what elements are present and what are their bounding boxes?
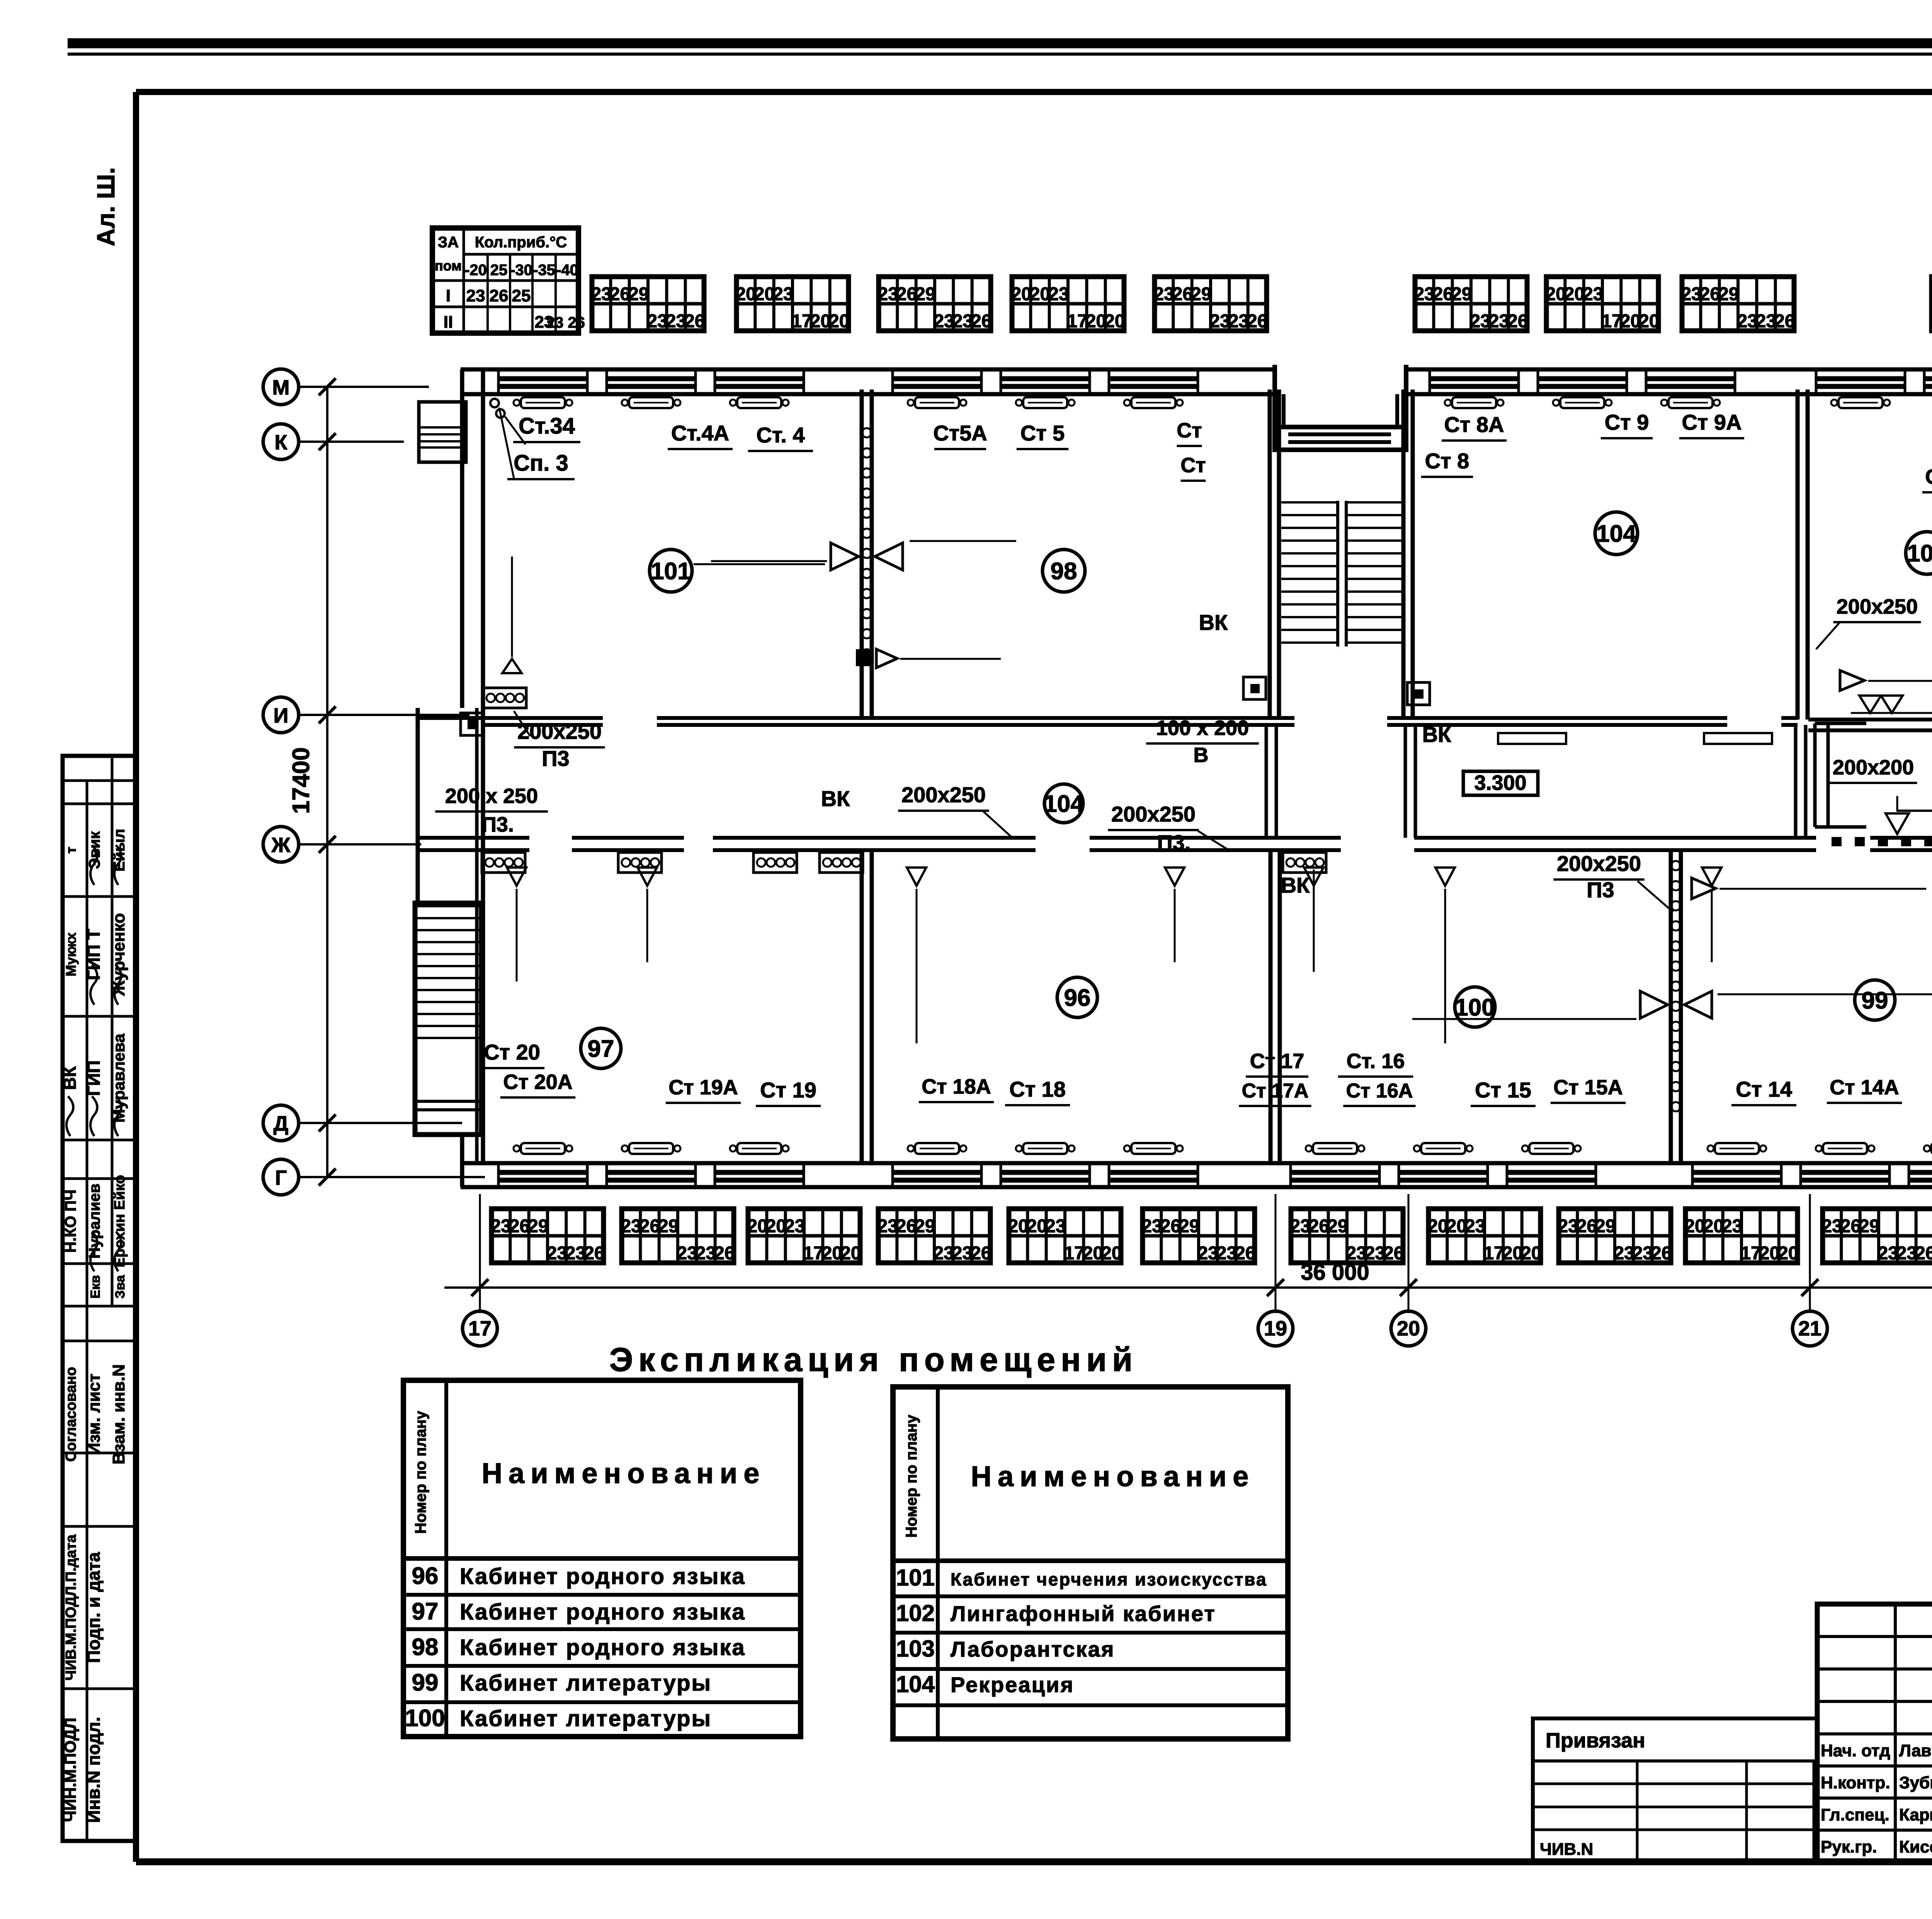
svg-text:23: 23 bbox=[784, 1216, 805, 1237]
svg-text:3.300: 3.300 bbox=[1474, 771, 1526, 794]
svg-text:25: 25 bbox=[512, 286, 531, 305]
svg-text:Изм. лист: Изм. лист bbox=[85, 1374, 104, 1455]
svg-text:23 26: 23 26 bbox=[546, 314, 585, 331]
svg-text:Ст 14А: Ст 14А bbox=[1830, 1076, 1899, 1099]
svg-text:20: 20 bbox=[1684, 1216, 1705, 1237]
svg-text:20: 20 bbox=[840, 1243, 861, 1264]
svg-text:20: 20 bbox=[1759, 1243, 1780, 1264]
svg-text:Ст. 16: Ст. 16 bbox=[1347, 1050, 1405, 1073]
svg-text:Г: Г bbox=[275, 1166, 287, 1189]
svg-text:20: 20 bbox=[1446, 1216, 1467, 1237]
svg-text:25: 25 bbox=[490, 262, 508, 279]
svg-text:Ст 18А: Ст 18А bbox=[922, 1075, 991, 1098]
svg-text:ВК: ВК bbox=[60, 1066, 80, 1090]
svg-text:23: 23 bbox=[1878, 1243, 1898, 1264]
svg-text:Лингафонный кабинет: Лингафонный кабинет bbox=[951, 1601, 1216, 1626]
svg-text:23: 23 bbox=[591, 284, 611, 305]
svg-text:Ст 20: Ст 20 bbox=[484, 1040, 540, 1064]
svg-text:Номер по плану: Номер по плану bbox=[903, 1414, 920, 1538]
svg-text:26: 26 bbox=[1840, 1216, 1861, 1237]
svg-text:Ст5А: Ст5А bbox=[933, 421, 987, 445]
svg-text:23: 23 bbox=[1896, 1243, 1917, 1264]
svg-text:М: М bbox=[272, 376, 290, 399]
svg-text:23: 23 bbox=[1583, 284, 1603, 305]
svg-text:20: 20 bbox=[735, 284, 756, 305]
svg-text:20: 20 bbox=[747, 1216, 767, 1237]
svg-text:Ст 17А: Ст 17А bbox=[1242, 1080, 1309, 1102]
svg-text:23: 23 bbox=[1048, 284, 1069, 305]
svg-text:19: 19 bbox=[1264, 1317, 1287, 1340]
svg-text:26: 26 bbox=[1309, 1216, 1329, 1237]
svg-text:Д: Д bbox=[274, 1112, 288, 1135]
svg-text:-30: -30 bbox=[510, 262, 532, 279]
svg-text:23: 23 bbox=[466, 286, 485, 305]
svg-text:Кабинет родного языка: Кабинет родного языка bbox=[460, 1564, 746, 1589]
svg-text:Ст 14: Ст 14 bbox=[1736, 1077, 1792, 1101]
svg-text:104: 104 bbox=[1596, 521, 1636, 547]
svg-text:29: 29 bbox=[528, 1216, 548, 1237]
svg-text:Наименование: Наименование bbox=[482, 1457, 766, 1489]
svg-text:26: 26 bbox=[1700, 284, 1720, 305]
svg-text:20: 20 bbox=[1083, 1243, 1103, 1264]
svg-text:20: 20 bbox=[1778, 1243, 1798, 1264]
svg-text:103: 103 bbox=[896, 1636, 935, 1662]
svg-text:200x250: 200x250 bbox=[901, 783, 986, 807]
svg-text:Ст 17: Ст 17 bbox=[1250, 1050, 1304, 1073]
svg-text:17: 17 bbox=[468, 1317, 492, 1340]
svg-text:23: 23 bbox=[1290, 1216, 1310, 1237]
svg-text:И: И bbox=[274, 704, 289, 727]
svg-text:20: 20 bbox=[1030, 284, 1050, 305]
svg-text:Нуралиев: Нуралиев bbox=[86, 1184, 103, 1259]
svg-text:23: 23 bbox=[1614, 1243, 1634, 1264]
svg-text:Взам. инв.N: Взам. инв.N bbox=[109, 1364, 128, 1464]
svg-text:29: 29 bbox=[1179, 1216, 1199, 1237]
svg-text:98: 98 bbox=[412, 1634, 439, 1660]
svg-text:II: II bbox=[444, 313, 453, 332]
svg-text:-35: -35 bbox=[533, 262, 555, 279]
svg-text:20: 20 bbox=[1639, 311, 1659, 332]
svg-text:29: 29 bbox=[1595, 1216, 1616, 1237]
svg-text:Ст.34: Ст.34 bbox=[519, 413, 575, 439]
svg-text:23: 23 bbox=[490, 1216, 511, 1237]
svg-text:20: 20 bbox=[1703, 1216, 1724, 1237]
svg-text:29: 29 bbox=[628, 284, 649, 305]
svg-text:ГИП: ГИП bbox=[83, 1060, 104, 1096]
svg-text:26: 26 bbox=[684, 311, 705, 332]
svg-text:Н.контр.: Н.контр. bbox=[1821, 1773, 1890, 1792]
svg-text:23: 23 bbox=[1756, 311, 1776, 332]
svg-text:Кабинет литературы: Кабинет литературы bbox=[460, 1706, 712, 1731]
svg-text:П3: П3 bbox=[542, 746, 569, 771]
svg-text:200x250: 200x250 bbox=[1837, 595, 1918, 618]
svg-text:Ерохин Ейко: Ерохин Ейко bbox=[112, 1175, 128, 1267]
svg-text:101: 101 bbox=[651, 558, 690, 585]
svg-text:П3.: П3. bbox=[1157, 830, 1191, 855]
svg-text:29: 29 bbox=[915, 1216, 935, 1237]
svg-text:26: 26 bbox=[584, 1243, 604, 1264]
svg-text:23: 23 bbox=[1470, 311, 1490, 332]
svg-text:П3.: П3. bbox=[481, 813, 514, 836]
svg-text:200x250: 200x250 bbox=[517, 719, 602, 743]
svg-text:ЗА: ЗА bbox=[438, 234, 459, 251]
svg-text:104: 104 bbox=[1044, 791, 1084, 817]
svg-text:17: 17 bbox=[791, 311, 812, 332]
svg-text:26: 26 bbox=[1774, 311, 1795, 332]
svg-text:26: 26 bbox=[639, 1216, 660, 1237]
svg-text:23: 23 bbox=[1489, 311, 1509, 332]
svg-text:20: 20 bbox=[1086, 311, 1106, 332]
svg-text:100: 100 bbox=[1455, 994, 1495, 1021]
svg-text:20: 20 bbox=[822, 1243, 842, 1264]
svg-text:26: 26 bbox=[1160, 1216, 1181, 1237]
svg-text:ВК: ВК bbox=[1281, 873, 1310, 897]
svg-text:102: 102 bbox=[896, 1600, 935, 1626]
svg-text:Нач. отд: Нач. отд bbox=[1821, 1741, 1890, 1760]
svg-text:26: 26 bbox=[1172, 284, 1193, 305]
svg-text:23: 23 bbox=[878, 284, 898, 305]
svg-text:ГИП Т: ГИП Т bbox=[83, 929, 104, 980]
svg-text:200x200: 200x200 bbox=[1833, 756, 1914, 779]
svg-text:Лавренов: Лавренов bbox=[1899, 1741, 1932, 1760]
svg-text:Ж: Ж bbox=[271, 834, 291, 857]
svg-text:96: 96 bbox=[1064, 985, 1091, 1011]
svg-text:I: I bbox=[446, 286, 451, 305]
svg-text:26: 26 bbox=[1235, 1243, 1255, 1264]
svg-text:Ст 9: Ст 9 bbox=[1605, 410, 1649, 434]
svg-text:23: 23 bbox=[933, 1243, 954, 1264]
svg-text:Лаборантская: Лаборантская bbox=[951, 1637, 1115, 1661]
svg-text:23: 23 bbox=[1216, 1243, 1237, 1264]
svg-text:Сп. 3: Сп. 3 bbox=[514, 451, 568, 476]
svg-text:23: 23 bbox=[621, 1216, 641, 1237]
svg-text:20: 20 bbox=[1521, 1243, 1541, 1264]
svg-text:23: 23 bbox=[1737, 311, 1757, 332]
svg-text:26: 26 bbox=[1507, 311, 1528, 332]
svg-text:23: 23 bbox=[647, 311, 667, 332]
svg-text:26: 26 bbox=[1577, 1216, 1597, 1237]
svg-text:-20: -20 bbox=[464, 262, 487, 279]
svg-text:Ст: Ст bbox=[1180, 454, 1206, 477]
svg-text:К: К bbox=[275, 431, 288, 454]
svg-text:29: 29 bbox=[915, 284, 935, 305]
svg-text:20: 20 bbox=[1564, 284, 1585, 305]
svg-text:26: 26 bbox=[971, 1243, 991, 1264]
svg-text:200 x 250: 200 x 250 bbox=[445, 784, 538, 808]
svg-text:Привязан: Привязан bbox=[1546, 1729, 1645, 1752]
svg-text:26: 26 bbox=[971, 311, 992, 332]
svg-text:23: 23 bbox=[934, 311, 954, 332]
svg-text:Ст 16А: Ст 16А bbox=[1346, 1080, 1413, 1102]
svg-text:102: 102 bbox=[1907, 540, 1932, 567]
svg-text:20: 20 bbox=[1427, 1216, 1448, 1237]
svg-text:26: 26 bbox=[1915, 1243, 1932, 1264]
svg-text:Ст 5: Ст 5 bbox=[1020, 421, 1065, 445]
svg-text:Ст 15: Ст 15 bbox=[1475, 1078, 1531, 1102]
svg-text:23: 23 bbox=[565, 1243, 586, 1264]
svg-text:23: 23 bbox=[1153, 284, 1174, 305]
svg-text:99: 99 bbox=[1862, 987, 1888, 1014]
svg-text:20: 20 bbox=[1397, 1317, 1420, 1340]
svg-text:29: 29 bbox=[1451, 284, 1472, 305]
svg-text:17400: 17400 bbox=[288, 747, 315, 814]
svg-text:23: 23 bbox=[1141, 1216, 1162, 1237]
svg-text:Ст 19А: Ст 19А bbox=[668, 1076, 738, 1099]
svg-text:23: 23 bbox=[773, 284, 793, 305]
svg-text:Подп. и дата: Подп. и дата bbox=[83, 1552, 104, 1663]
svg-text:ЧИВ.М.ПОДЛ.П.дата: ЧИВ.М.ПОДЛ.П.дата bbox=[63, 1534, 79, 1681]
svg-text:20: 20 bbox=[754, 284, 775, 305]
svg-text:17: 17 bbox=[1740, 1243, 1761, 1264]
svg-text:26: 26 bbox=[896, 1216, 917, 1237]
svg-text:20: 20 bbox=[1104, 311, 1125, 332]
svg-text:20: 20 bbox=[766, 1216, 786, 1237]
svg-text:26: 26 bbox=[1433, 284, 1453, 305]
svg-text:Рук.гр.: Рук.гр. bbox=[1821, 1837, 1877, 1856]
svg-text:23: 23 bbox=[952, 311, 973, 332]
svg-text:Кабинет литературы: Кабинет литературы bbox=[460, 1671, 712, 1696]
svg-text:Ст 8А: Ст 8А bbox=[1444, 412, 1504, 437]
svg-text:Согласовано: Согласовано bbox=[63, 1367, 79, 1461]
svg-text:Н.КО ПЧ: Н.КО ПЧ bbox=[62, 1189, 79, 1253]
svg-text:23: 23 bbox=[1414, 284, 1434, 305]
svg-text:26: 26 bbox=[1383, 1243, 1404, 1264]
svg-text:пом: пом bbox=[435, 258, 462, 274]
svg-text:Муравлева: Муравлева bbox=[110, 1033, 128, 1123]
svg-text:т: т bbox=[63, 847, 79, 854]
svg-text:29: 29 bbox=[658, 1216, 679, 1237]
svg-text:ВК: ВК bbox=[1422, 722, 1451, 747]
svg-text:ВК: ВК bbox=[821, 786, 850, 811]
svg-text:23: 23 bbox=[952, 1243, 973, 1264]
svg-text:26: 26 bbox=[1651, 1243, 1672, 1264]
svg-text:104: 104 bbox=[896, 1671, 935, 1697]
svg-text:Ст 20А: Ст 20А bbox=[503, 1070, 573, 1094]
svg-text:23: 23 bbox=[1681, 284, 1701, 305]
svg-text:36 000: 36 000 bbox=[1301, 1260, 1369, 1285]
svg-text:Екв: Екв bbox=[88, 1275, 103, 1299]
svg-text:96: 96 bbox=[412, 1563, 439, 1589]
svg-text:Кабинет черчения изоискусства: Кабинет черчения изоискусства bbox=[951, 1569, 1267, 1589]
svg-text:ВК: ВК bbox=[1199, 610, 1228, 635]
svg-text:Ст 19: Ст 19 bbox=[760, 1078, 816, 1102]
svg-text:Рекреация: Рекреация bbox=[951, 1672, 1074, 1697]
svg-text:200x250: 200x250 bbox=[1111, 802, 1196, 826]
svg-text:Ст 15А: Ст 15А bbox=[1553, 1076, 1623, 1099]
svg-text:17: 17 bbox=[1067, 311, 1087, 332]
svg-text:Инв.N подл.: Инв.N подл. bbox=[83, 1717, 104, 1823]
svg-text:17: 17 bbox=[1064, 1243, 1084, 1264]
svg-text:Ст. 4: Ст. 4 bbox=[756, 423, 804, 447]
svg-text:23: 23 bbox=[1197, 1243, 1218, 1264]
svg-text:17: 17 bbox=[803, 1243, 823, 1264]
svg-text:20: 20 bbox=[1027, 1216, 1047, 1237]
svg-text:ЧИН.М.ПОДЛ: ЧИН.М.ПОДЛ bbox=[61, 1718, 79, 1822]
svg-text:23: 23 bbox=[877, 1216, 898, 1237]
svg-text:23: 23 bbox=[546, 1243, 567, 1264]
svg-text:23: 23 bbox=[1465, 1216, 1485, 1237]
svg-text:Мукжх: Мукжх bbox=[63, 932, 79, 977]
svg-text:Наименование: Наименование bbox=[971, 1460, 1255, 1492]
svg-text:101: 101 bbox=[896, 1565, 935, 1591]
svg-text:23: 23 bbox=[666, 311, 686, 332]
svg-text:17: 17 bbox=[1483, 1243, 1504, 1264]
svg-text:97: 97 bbox=[588, 1036, 614, 1062]
svg-text:26: 26 bbox=[1247, 311, 1267, 332]
svg-text:Ст 10А: Ст 10А bbox=[1925, 465, 1932, 488]
svg-text:97: 97 bbox=[412, 1598, 439, 1625]
svg-text:29: 29 bbox=[1191, 284, 1211, 305]
svg-text:17: 17 bbox=[1601, 311, 1622, 332]
svg-text:98: 98 bbox=[1051, 558, 1077, 585]
svg-text:23: 23 bbox=[1045, 1216, 1066, 1237]
svg-text:20: 20 bbox=[829, 311, 849, 332]
svg-text:Кабинет родного языка: Кабинет родного языка bbox=[460, 1599, 746, 1625]
svg-text:Ст 8: Ст 8 bbox=[1425, 449, 1469, 473]
svg-text:ЧИВ.N: ЧИВ.N bbox=[1540, 1840, 1593, 1859]
svg-text:26: 26 bbox=[509, 1216, 530, 1237]
svg-text:26: 26 bbox=[896, 284, 917, 305]
svg-text:100: 100 bbox=[405, 1705, 445, 1732]
svg-text:29: 29 bbox=[1718, 284, 1739, 305]
svg-text:26: 26 bbox=[490, 286, 509, 305]
svg-text:-40: -40 bbox=[556, 262, 578, 279]
svg-text:23: 23 bbox=[696, 1243, 716, 1264]
svg-text:20: 20 bbox=[1008, 1216, 1028, 1237]
svg-text:100 x 200: 100 x 200 bbox=[1156, 716, 1249, 740]
svg-text:Карманова: Карманова bbox=[1899, 1805, 1932, 1824]
svg-text:23: 23 bbox=[677, 1243, 697, 1264]
svg-text:Ал. Ш.: Ал. Ш. bbox=[92, 167, 120, 247]
svg-text:Ст: Ст bbox=[1177, 419, 1202, 442]
svg-text:20: 20 bbox=[1011, 284, 1031, 305]
svg-text:29: 29 bbox=[1859, 1216, 1879, 1237]
svg-text:99: 99 bbox=[412, 1669, 439, 1696]
svg-text:29: 29 bbox=[1327, 1216, 1348, 1237]
svg-text:23: 23 bbox=[1209, 311, 1230, 332]
svg-text:20: 20 bbox=[1930, 284, 1932, 305]
svg-text:20: 20 bbox=[810, 311, 831, 332]
svg-text:Гл.спец.: Гл.спец. bbox=[1821, 1805, 1889, 1824]
svg-text:П3: П3 bbox=[1587, 878, 1614, 902]
svg-text:Кол.приб.°С: Кол.приб.°С bbox=[475, 234, 567, 251]
svg-text:200x250: 200x250 bbox=[1557, 851, 1641, 876]
svg-text:Ст 9А: Ст 9А bbox=[1682, 410, 1742, 434]
svg-text:23: 23 bbox=[1558, 1216, 1578, 1237]
svg-text:26: 26 bbox=[610, 284, 630, 305]
svg-text:20: 20 bbox=[1620, 311, 1641, 332]
svg-text:21: 21 bbox=[1798, 1317, 1821, 1340]
svg-text:23: 23 bbox=[1821, 1216, 1842, 1237]
svg-text:20: 20 bbox=[1545, 284, 1566, 305]
svg-text:Ст 18: Ст 18 bbox=[1009, 1077, 1066, 1101]
svg-text:Киселева: Киселева bbox=[1899, 1837, 1932, 1856]
svg-text:Номер по плану: Номер по плану bbox=[412, 1410, 429, 1534]
svg-text:26: 26 bbox=[714, 1243, 735, 1264]
svg-text:23: 23 bbox=[1633, 1243, 1653, 1264]
svg-text:23: 23 bbox=[1228, 311, 1249, 332]
svg-text:Ст.4А: Ст.4А bbox=[671, 421, 729, 445]
svg-text:20: 20 bbox=[1502, 1243, 1523, 1264]
svg-text:Экспликация помещений: Экспликация помещений bbox=[609, 1341, 1138, 1378]
svg-text:23: 23 bbox=[1722, 1216, 1742, 1237]
svg-text:20: 20 bbox=[1101, 1243, 1122, 1264]
svg-text:Зва: Зва bbox=[113, 1275, 128, 1299]
svg-text:Кабинет родного языка: Кабинет родного языка bbox=[460, 1635, 746, 1660]
svg-text:Зубцова: Зубцова bbox=[1899, 1773, 1932, 1792]
svg-text:В: В bbox=[1194, 743, 1209, 767]
